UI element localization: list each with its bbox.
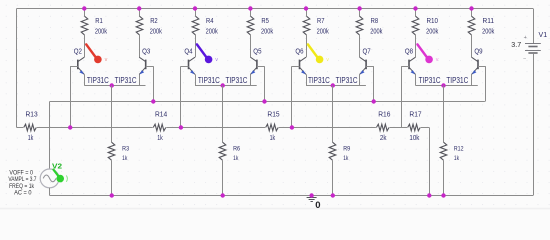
svg-text:FREQ = 1k: FREQ = 1k — [9, 184, 35, 190]
resistor R13 1k — [24, 112, 38, 142]
svg-text:1k: 1k — [343, 155, 349, 162]
svg-text:R13: R13 — [26, 112, 38, 119]
LED indicator 2 — [197, 44, 218, 63]
resistor R3 1k — [108, 142, 129, 162]
resistor R5 200k — [247, 9, 273, 36]
resistor R2 200k — [136, 9, 162, 36]
svg-text:Q3: Q3 — [142, 48, 150, 55]
wire Q4 base to row — [180, 66, 182, 127]
junction ground symbol on rail — [309, 193, 313, 197]
resistor R10 200k — [412, 9, 438, 36]
wire Q6 base to row — [291, 66, 293, 127]
svg-text:Q9: Q9 — [474, 48, 482, 55]
wire R7 to collector — [306, 35, 308, 57]
junction emitter link pair 3 — [331, 83, 335, 87]
transistor Q8 TIP31C (left) — [401, 48, 440, 85]
svg-text:v: v — [436, 57, 439, 63]
svg-text:R6: R6 — [233, 146, 240, 153]
wire sync rail (V2 to odd transistor bases) — [50, 101, 485, 103]
svg-text:VAMPL = 3.7: VAMPL = 3.7 — [8, 177, 37, 183]
svg-text:Q8: Q8 — [405, 48, 413, 55]
junction Q3 base on sync rail — [151, 99, 155, 103]
transistor Q9 TIP31C (right) — [446, 48, 485, 85]
junction R6 on ground rail — [221, 193, 225, 197]
svg-text:1k: 1k — [233, 155, 239, 162]
junction R3 on ground rail — [110, 193, 114, 197]
svg-text:10k: 10k — [409, 135, 419, 142]
junction emitter link pair 2 — [221, 83, 225, 87]
resistor R17 10k — [408, 112, 422, 142]
junction R12 on ground rail — [441, 193, 445, 197]
svg-text:+: + — [524, 35, 527, 41]
LED indicator 3 — [308, 44, 329, 63]
svg-text:R5: R5 — [261, 18, 269, 25]
wire emitter link Q6-Q7 — [306, 74, 366, 85]
wire Q2 base to row — [70, 66, 72, 127]
junction Q6 base on row — [290, 125, 294, 129]
transistor Q2 TIP31C (left) — [70, 48, 109, 85]
svg-text:200k: 200k — [261, 28, 274, 35]
resistor R7 200k — [303, 9, 329, 36]
transistor Q4 TIP31C (left) — [181, 48, 220, 85]
wire R1 to collector — [84, 35, 86, 57]
wire R12 to ground rail — [443, 160, 445, 195]
resistor R16 2k — [376, 112, 390, 142]
svg-text:R14: R14 — [155, 112, 167, 119]
svg-text:R1: R1 — [95, 18, 103, 25]
junction emitter link pair 1 — [110, 83, 114, 87]
wire R5 to collector — [250, 35, 252, 57]
svg-text:1k: 1k — [28, 135, 34, 142]
svg-text:0: 0 — [315, 200, 320, 211]
svg-text:V1: V1 — [539, 32, 548, 39]
wire V2 to sync rail — [49, 102, 51, 170]
resistor R11 200k — [468, 9, 494, 36]
junction emitter link pair 4 — [441, 83, 445, 87]
svg-text:R8: R8 — [371, 18, 379, 25]
junction R1 top rail — [82, 6, 86, 10]
svg-text:1k: 1k — [454, 155, 460, 162]
junction R5 top rail — [248, 6, 252, 10]
LED indicator 1 — [86, 44, 107, 63]
wire base row R14-R15 — [166, 127, 265, 129]
svg-text:R10: R10 — [427, 18, 439, 25]
resistor R9 1k — [329, 142, 350, 162]
wire emitter link Q8-Q9 — [416, 74, 478, 85]
wire emitter pair 3 to R9 — [332, 86, 334, 143]
svg-text:TIP31C: TIP31C — [198, 76, 220, 85]
junction Q2 base on row — [68, 125, 72, 129]
wire Q8 base to row — [401, 66, 403, 127]
wire emitter link Q4-Q5 — [195, 74, 257, 85]
svg-text:v: v — [326, 57, 329, 63]
wire R2 to collector — [139, 35, 141, 57]
junction Q5 base on sync rail — [262, 99, 266, 103]
svg-text:TIP31C: TIP31C — [308, 76, 330, 85]
transistor Q5 TIP31C (right) — [226, 48, 265, 85]
junction R17 corner on ground rail — [427, 193, 431, 197]
svg-text:TIP31C: TIP31C — [419, 76, 441, 85]
junction Q4 base on row — [179, 125, 183, 129]
LED indicator 4 — [417, 44, 438, 63]
resistor R14 1k — [153, 112, 167, 142]
svg-text:−: − — [523, 57, 526, 63]
svg-text:200k: 200k — [317, 28, 330, 35]
svg-text:R16: R16 — [378, 112, 390, 119]
wire emitter pair 2 to R6 — [222, 86, 224, 143]
source V2 VSIN — [8, 162, 62, 197]
svg-text:v: v — [105, 57, 108, 63]
wire R4 to collector — [195, 35, 197, 57]
svg-text:AC = 0: AC = 0 — [14, 191, 32, 197]
svg-text:R7: R7 — [317, 18, 325, 25]
svg-text:R11: R11 — [483, 18, 495, 25]
junction R7 top rail — [304, 6, 308, 10]
junction R9 on ground rail — [331, 193, 335, 197]
resistor R1 200k — [81, 9, 107, 36]
wire Q9 base to sync rail — [485, 66, 487, 101]
svg-text:Q2: Q2 — [74, 48, 82, 55]
wire V1 positive lead — [533, 9, 535, 44]
svg-text:Q7: Q7 — [363, 48, 371, 55]
svg-text:Q4: Q4 — [184, 48, 192, 55]
junction Q7 base on sync rail — [372, 99, 376, 103]
wire R11 to collector — [471, 35, 473, 57]
svg-text:200k: 200k — [482, 28, 495, 35]
svg-text:1k: 1k — [270, 135, 276, 142]
wire base row R16-R17 — [390, 127, 408, 129]
battery V1 3.7V — [511, 32, 547, 63]
svg-text:1k: 1k — [157, 135, 163, 142]
resistor R15 1k — [266, 112, 280, 142]
wire V1 negative lead / right rail — [533, 53, 535, 195]
svg-text:Q6: Q6 — [295, 48, 303, 55]
svg-text:TIP31C: TIP31C — [226, 76, 248, 85]
wire R3 to ground rail — [111, 160, 113, 195]
svg-text:200k: 200k — [206, 28, 219, 35]
svg-text:VOFF = 0: VOFF = 0 — [9, 170, 33, 176]
transistor Q3 TIP31C (right) — [115, 48, 154, 85]
transistor Q7 TIP31C (right) — [336, 48, 374, 85]
svg-text:TIP31C: TIP31C — [336, 76, 358, 85]
resistor R8 200k — [356, 9, 383, 36]
wire emitter link Q2-Q3 — [84, 74, 145, 85]
LED indicator V2 (green) — [53, 170, 67, 183]
wire base row R15-R16 — [279, 127, 376, 129]
svg-text:1k: 1k — [122, 155, 128, 162]
svg-text:R17: R17 — [409, 112, 421, 119]
svg-text:R9: R9 — [343, 146, 350, 153]
junction R4 top rail — [193, 6, 197, 10]
svg-text:Q5: Q5 — [253, 48, 261, 55]
wire Q7 base to sync rail — [373, 66, 375, 101]
junction R8 top rail — [357, 6, 361, 10]
wire Q3 base to sync rail — [153, 66, 155, 101]
svg-text:3.7: 3.7 — [511, 42, 521, 49]
ground 0 — [307, 196, 321, 212]
svg-text:200k: 200k — [150, 28, 163, 35]
svg-text:R4: R4 — [206, 18, 214, 25]
resistor R6 1k — [219, 142, 240, 162]
junction R10 top rail — [413, 6, 417, 10]
wire Q5 base to sync rail — [264, 66, 266, 101]
wire left rail (top rail to R13) — [17, 9, 24, 128]
wire V2 to ground rail — [49, 188, 51, 196]
svg-text:R15: R15 — [267, 112, 279, 119]
svg-text:TIP31C: TIP31C — [87, 76, 109, 85]
wire base row R17 to ground rail corner — [421, 128, 430, 196]
wire base row R13-R14 — [37, 127, 153, 129]
junction R2 top rail — [137, 6, 141, 10]
resistor R4 200k — [192, 9, 218, 36]
resistor R12 1k — [440, 142, 463, 162]
wire emitter pair 4 to R12 — [443, 86, 445, 143]
junction R11 top rail — [469, 6, 473, 10]
svg-text:2k: 2k — [380, 135, 387, 142]
svg-text:TIP31C: TIP31C — [446, 76, 468, 85]
wire R9 to ground rail — [332, 160, 334, 195]
wire ground rail — [50, 195, 533, 197]
wire R8 to collector — [359, 35, 361, 57]
svg-text:200k: 200k — [426, 28, 439, 35]
svg-text:R3: R3 — [122, 146, 129, 153]
wire emitter pair 1 to R3 — [111, 86, 113, 143]
wire top power rail — [17, 8, 533, 10]
svg-text:200k: 200k — [370, 28, 383, 35]
svg-text:R2: R2 — [150, 18, 158, 25]
svg-text:R12: R12 — [454, 146, 464, 153]
wire R6 to ground rail — [222, 160, 224, 195]
svg-text:v: v — [215, 57, 218, 63]
svg-text:200k: 200k — [95, 28, 108, 35]
svg-text:TIP31C: TIP31C — [115, 76, 137, 85]
wire R10 to collector — [415, 35, 417, 57]
transistor Q6 TIP31C (left) — [292, 48, 330, 85]
